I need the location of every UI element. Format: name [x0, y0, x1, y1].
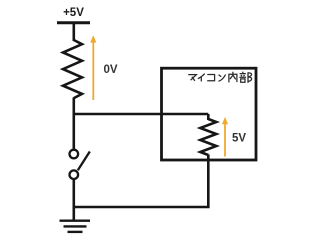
wire R2 to bottom — [207, 155, 210, 208]
svg-text:5V: 5V — [232, 132, 246, 144]
+5V rail bar — [57, 21, 90, 24]
switch SW1 top contact — [70, 150, 79, 159]
resistor R2 — [200, 119, 216, 155]
ground stub — [73, 207, 76, 220]
wire rail to R1 — [73, 23, 76, 41]
arrow voltage across R1 — [92, 41, 94, 100]
ground bar 3 — [68, 231, 83, 233]
switch SW1 bottom contact — [70, 170, 79, 179]
wire bottom return — [73, 206, 210, 209]
svg-text:+5V: +5V — [63, 7, 84, 19]
wire R1 to switch — [73, 98, 76, 150]
glyph マ — [188, 75, 196, 81]
glyph 部 — [239, 72, 251, 83]
switch SW1 lever — [78, 152, 90, 171]
glyph コ — [207, 75, 214, 81]
glyph ン — [218, 75, 225, 82]
wire into R2 — [207, 114, 210, 120]
ground bar 1 — [60, 219, 91, 221]
glyph 内 — [229, 72, 237, 83]
wire branch to box (node between R1 and switch) — [73, 113, 209, 116]
ground bar 2 — [64, 225, 87, 227]
wire switch to ground junction — [73, 180, 76, 209]
label マイコン内部 (drawn as paths) — [188, 72, 251, 83]
box microcontroller internal — [162, 68, 257, 160]
arrow voltage across R2 — [224, 123, 226, 157]
resistor R1 — [63, 40, 82, 98]
glyph イ — [198, 74, 205, 82]
svg-text:0V: 0V — [104, 64, 118, 76]
